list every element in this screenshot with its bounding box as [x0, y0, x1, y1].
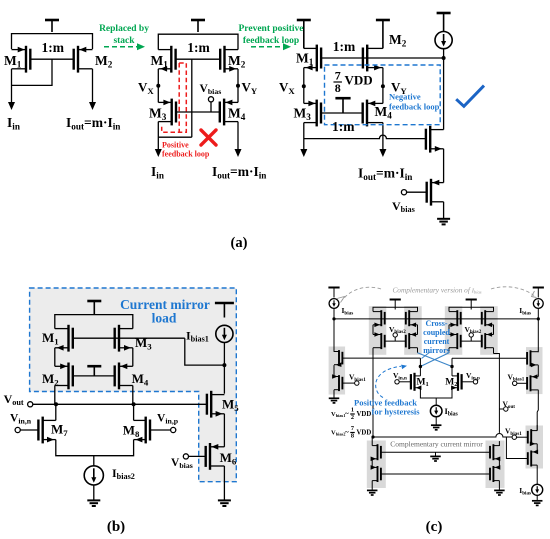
transistor M4 (a-mid) — [220, 99, 238, 126]
wire: left cascode chain from Ibias node (c) — [333, 319, 335, 352]
wire: left Ibias to upper gate rail (c) — [332, 308, 335, 320]
label Vbias (b) — [171, 457, 193, 470]
power VDD (b) — [87, 301, 101, 315]
annotation leader line (blue) — [422, 352, 431, 359]
label M2 (c) — [445, 378, 457, 389]
label M2 (a-right) — [389, 32, 407, 48]
wire: M1 drain to M2 source (b) — [54, 348, 56, 367]
svg-text:1:m: 1:m — [332, 119, 355, 134]
label VY (a-mid) — [242, 80, 258, 96]
transistor M2 (a-right) — [363, 45, 383, 72]
wire: cross-coupled connection X (blue) (c) — [418, 353, 453, 367]
transistor M7 (b) — [38, 417, 55, 444]
svg-text:8: 8 — [351, 433, 354, 440]
transistor: bottom mirror right lower NMOS (c) — [490, 465, 500, 482]
shade: bottom mirror right column (c) — [486, 441, 505, 489]
transistor M1 (b) — [55, 325, 73, 352]
label M6 (b) — [220, 450, 237, 466]
label Vbias (a-right) — [392, 199, 415, 214]
wire: gate rail M2-M4 (b) — [73, 375, 115, 377]
label Vbias1 left (c) — [349, 373, 366, 383]
current source right Ibias (c) — [533, 299, 543, 309]
transistor: right pair upper-right PMOS (c) — [482, 310, 494, 327]
transistor M3 (b) — [115, 325, 133, 352]
wire: gate rail M3-M4 with Vbias stem (a-mid) — [176, 102, 220, 112]
transistor: right pair lower-left PMOS (c) — [449, 332, 461, 349]
transistor: left cascode upper NMOS (c) — [334, 350, 342, 367]
wire: lower gate rail right block with Vbias2 stem (c) — [461, 337, 482, 341]
svg-text:Complementary version of Ibias: Complementary version of Ibias — [392, 285, 481, 294]
shade: right PMOS pair right column (c) — [480, 306, 498, 355]
wire: bottom mirror input rail with hop (c) — [373, 434, 512, 438]
wire: left block right column spine segments (c) — [417, 325, 419, 353]
label: Complementary current mirror (c) — [390, 440, 483, 449]
wire: right lower cascode drain up (c) — [536, 425, 538, 431]
transistor M1 (a-right) — [304, 45, 321, 72]
svg-text:~: ~ — [345, 429, 349, 437]
transistor: right lower cascode lower NMOS (c) — [528, 450, 538, 467]
svg-text:(b): (b) — [107, 519, 125, 535]
ground bottom right (c) — [532, 501, 543, 506]
terminal Vbias1 right lower (c) — [512, 435, 528, 439]
shade: left PMOS pair right column (c) — [404, 306, 422, 355]
label: Negative feedback loop (blue) — [389, 92, 440, 112]
ground M6 (b) — [218, 500, 231, 506]
label Ibias2 (b) — [112, 466, 135, 481]
label M2 (a-left) — [95, 53, 113, 69]
wire: VDD rail (b) — [55, 315, 133, 329]
annotation: Positive feedback for hysteresis (blue) — [354, 398, 420, 417]
wire: bottom mirror left spine (c) — [371, 437, 373, 490]
wire: M4 drain down to M8 node (b) — [132, 386, 134, 405]
label Vbias2 left (c) — [389, 325, 406, 335]
svg-text:Cross-: Cross- — [425, 319, 447, 328]
wire: Ibias1 to junction, step to gate rail (b) — [185, 338, 227, 394]
transistor M2 (a-mid PMOS) — [220, 46, 238, 73]
wire: VDD rail (a-mid) — [158, 34, 238, 49]
ground tail (c) — [431, 425, 442, 430]
label M7 (b) — [51, 422, 68, 438]
wire: M2 drain to right cascode gate (c) — [452, 357, 526, 359]
wire: left cascode gate to M1 drain node (c) — [342, 358, 420, 366]
wire: upper gate rail left block (c) — [334, 318, 538, 320]
label 1:m (a-mid) — [187, 40, 210, 55]
wire: M6 source to ground (a-right) — [443, 202, 445, 218]
svg-text:coupled: coupled — [423, 328, 450, 337]
wire: M3 drain down (a-right) — [300, 123, 307, 157]
transistor: left cascode lower NMOS Vbias1 (c) — [332, 374, 342, 391]
power VDD M2 (a-right) — [376, 20, 390, 48]
transistor: right lower cascode upper NMOS Vbias1 (c) — [528, 429, 537, 446]
svg-text:1: 1 — [351, 407, 354, 414]
label Vbias2 right (c) — [465, 325, 482, 335]
ground (a-right) — [437, 219, 450, 225]
current source bottom right Ibias (c) — [532, 484, 543, 495]
label M3 (a-right) — [294, 106, 312, 122]
label M5 (b) — [222, 397, 239, 413]
svg-text:1:m: 1:m — [187, 40, 210, 55]
terminal Vbias2 left (c) — [393, 333, 397, 337]
wire: bottom mirror upper gate rail (c) — [381, 451, 490, 453]
label 1:m (a-left) — [42, 40, 65, 55]
highlight: current mirror load region (gray fill, blue dashed) — [30, 288, 237, 482]
label Iout=m*Iin (a-right) — [358, 166, 412, 182]
wire: gate rail M3-M4 (a-right) — [321, 112, 363, 114]
wire: tail rail (b) — [56, 440, 134, 456]
transistor M2 (b) — [55, 363, 73, 390]
transistor: bottom mirror right upper NMOS (c) — [490, 444, 500, 461]
terminal Vin,p (b) — [150, 427, 176, 432]
label M3 (b) — [135, 335, 152, 351]
transistor M3 (a-right) — [304, 100, 321, 127]
label Iout=m*Iin (a-left) — [66, 115, 120, 131]
terminal Vbias (a-right) — [401, 190, 426, 195]
shade: right lower cascode column (c) — [526, 426, 544, 469]
shade: left PMOS pair left column (c) — [369, 306, 387, 355]
terminal Vbias (a-mid) — [208, 97, 213, 102]
transistor: bottom mirror left upper NMOS (c) — [371, 444, 381, 461]
annotation arrow: blue dashed hysteresis arc — [376, 365, 407, 398]
wire: Iin branch with current arrow (a-left) — [8, 69, 15, 110]
transistor M2 (a-left PMOS) — [74, 46, 93, 73]
svg-text:Complementary current mirror: Complementary current mirror — [390, 440, 483, 449]
wire: M4 drain down with Iout arrow (a-right) — [379, 123, 386, 157]
transistor M5 cascode NMOS (a-right) — [426, 126, 444, 153]
label M2 (b) — [42, 371, 59, 387]
wire: feedback wire to M5 gate with hop over M4 drain (a-right) — [304, 135, 426, 139]
wire: right upper cascode mid (c) — [537, 365, 539, 376]
label M1 (a-left) — [4, 53, 22, 69]
current source Ibias (a-right) — [435, 31, 452, 48]
wire: gate-to-drain feedback vertical (a-mid) — [191, 59, 193, 137]
wire: right lower cascode mid (c) — [536, 444, 538, 452]
wire: left block output down to bottom mirror (c) — [371, 354, 374, 438]
annotation: Complementary version of Ibias (gray) — [392, 285, 481, 294]
svg-text:8: 8 — [335, 81, 341, 95]
wire: right block left column spine segments (c) — [448, 325, 450, 353]
highlight: negative feedback loop box (blue dashed) — [325, 65, 441, 125]
transistor: right upper cascode lower NMOS (c) — [527, 374, 538, 391]
label bottom right Ibias (c) — [519, 486, 531, 496]
transistor M3 (a-mid) — [158, 99, 176, 126]
svg-text:VDD: VDD — [357, 411, 372, 418]
transistor: right pair upper-left PMOS (c) — [449, 310, 461, 327]
mark: blue checkmark — [456, 86, 484, 107]
annotation arrow: replaced-by-stack dashed green arrow — [104, 43, 145, 50]
label Vbias1 right lower (c) — [505, 427, 522, 437]
wire: rail right PMOS pair (c) — [449, 307, 494, 311]
svg-text:Replaced by: Replaced by — [99, 24, 149, 34]
wire: gate rail M1-M2 (a-left) — [30, 58, 73, 60]
label VX (a-right) — [279, 80, 295, 96]
label M1 (a-right) — [296, 51, 314, 67]
power VDD left PMOS pair (c) — [390, 300, 401, 310]
svg-text:1:m: 1:m — [333, 39, 356, 54]
label VY (a-right) — [391, 80, 407, 96]
wire: right Ibias stem (c) — [537, 308, 539, 319]
current source Ibias2 (b) — [84, 456, 103, 500]
shade: right upper cascode column (c) — [526, 347, 543, 394]
highlight: positive feedback loop (red dashed) — [162, 63, 187, 132]
transistor M6 Vbias NMOS (a-right) — [427, 179, 444, 206]
label (c) — [426, 519, 443, 535]
wire: V_out branch vertical (c) — [498, 358, 500, 433]
power VDD current source (a-right) — [437, 13, 451, 31]
wire: M6 source to ground (b) — [223, 466, 225, 500]
wire: left cascode source to ground (c) — [333, 390, 335, 398]
terminal Vin,n (c) — [395, 380, 411, 384]
label M1 (b) — [42, 330, 59, 346]
transistor: right pair lower-right PMOS (c) — [482, 332, 494, 349]
wire: right lower cascode source to Ibias (c) — [536, 465, 538, 484]
transistor M4 (b) — [115, 363, 133, 390]
wire: Vout vertical below hop (c) — [498, 441, 500, 446]
wire: bottom mirror right spine (c) — [498, 446, 500, 490]
power VDD M1 (a-right) — [297, 20, 311, 48]
label M4 (a-right) — [375, 104, 393, 120]
label Iin (a-mid) — [151, 164, 164, 180]
wire: diode connection gate to drain (a-left) — [12, 59, 53, 85]
wire: M3 drain to M4 source (b) — [132, 348, 134, 367]
ground Ibias2 (b) — [87, 500, 100, 506]
label tail Ibias (c) — [445, 406, 459, 418]
label VX (a-mid) — [138, 80, 154, 96]
power VDD (a-left) — [45, 20, 59, 32]
wire: bottom right Ibias to ground (c) — [536, 495, 538, 500]
power VDD (a-mid) — [191, 20, 205, 32]
svg-text:~: ~ — [345, 410, 349, 418]
power VDD left Ibias (c) — [328, 288, 339, 298]
label Vin,n (b) — [10, 413, 32, 426]
annotation: Cross-coupled current mirrors (blue) — [423, 319, 450, 355]
transistor M4 (a-right) — [363, 100, 383, 127]
transistor: bottom mirror left lower NMOS (c) — [371, 465, 381, 482]
transistor M1 (a-mid PMOS) — [158, 46, 175, 73]
wire: rail left PMOS pair (c) — [373, 307, 418, 311]
label Iin (a-left) — [7, 115, 20, 131]
annotation: Replaced by stack (green) — [99, 24, 149, 46]
shade: bottom mirror left column (c) — [367, 441, 386, 489]
transistor: left pair lower-left PMOS (c) — [373, 332, 385, 349]
transistor: left pair upper-left PMOS (c) — [373, 310, 385, 327]
terminal Vbias2 right (c) — [469, 333, 473, 337]
label Vout (c) — [503, 400, 516, 410]
terminal Vout (b) — [28, 402, 33, 407]
label (a) — [231, 235, 248, 251]
label 7/8 VDD (a-right) — [333, 69, 372, 95]
label 1:m top (a-right) — [333, 39, 356, 54]
annotation arrow: prevent-loop dashed green arrow — [251, 43, 291, 50]
label M1 (a-mid) — [151, 53, 169, 69]
terminal Vbias (b) — [183, 454, 205, 459]
wire: Iout branch with current arrow (a-left) — [89, 69, 96, 110]
wire: bottom mirror lower gate rail (c) — [381, 473, 490, 475]
svg-text:load: load — [152, 311, 177, 326]
transistor M2 (c) — [451, 373, 462, 391]
wire: diff pair tail rail (c) — [420, 388, 452, 398]
svg-text:feedback loop: feedback loop — [243, 36, 299, 46]
annotation arrow: right dashed gray arc — [491, 287, 537, 298]
wire: gate rail M1-M3 extended (b) — [73, 337, 185, 339]
node VY (a-mid) — [236, 69, 240, 103]
transistor: right upper cascode upper NMOS (c) — [527, 350, 538, 367]
svg-text:Prevent positive: Prevent positive — [239, 24, 304, 34]
shade: right PMOS pair left column (c) — [445, 306, 463, 355]
wire: M8 drain up (b) — [133, 404, 135, 420]
transistor M5 (b) — [207, 391, 225, 418]
transistor M1 (c) — [411, 373, 422, 391]
junction: right Ibias node (c) — [537, 317, 540, 320]
svg-text:7: 7 — [351, 425, 354, 432]
svg-text:feedback loop: feedback loop — [162, 150, 210, 159]
ground left cascode (c) — [329, 398, 340, 403]
wire: right block right column spine segments (c) — [494, 325, 500, 358]
svg-text:stack: stack — [113, 36, 135, 46]
power symbol at M2-M4 gates (b) — [87, 366, 101, 376]
label Iout=m*Iin (a-mid) — [212, 164, 266, 180]
label Vin,p (b) — [157, 413, 179, 426]
shade: left cascode column (c) — [329, 347, 346, 395]
wire: Vout rail with junction dots (b) — [33, 402, 207, 406]
wire: M5 source to M6 drain (b) — [223, 414, 225, 447]
label M4 (b) — [132, 371, 149, 387]
terminal Vin,p (c) — [462, 380, 478, 384]
label left Ibias (c) — [342, 306, 354, 316]
wire: VDD rail (a-left) — [12, 34, 93, 49]
svg-text:Positive: Positive — [162, 141, 189, 150]
terminal Vbias1 right upper (c) — [513, 381, 528, 385]
transistor M6 (b) — [206, 443, 225, 470]
label 1:m bottom (a-right) — [332, 119, 355, 134]
node VY (a-right) — [381, 68, 385, 104]
mark: red X (a-mid) — [201, 130, 216, 145]
label M2 (a-mid) — [228, 53, 246, 69]
label: Current mirror load (blue) — [120, 297, 210, 326]
label M3 (a-mid) — [149, 106, 167, 122]
wire: M4 drain to Iout arrow (a-mid) — [235, 122, 242, 157]
terminal Vbias1 left (c) — [342, 381, 359, 385]
wire: current source to gate node with junction (a-right) — [442, 49, 446, 130]
wire: left block left column spine segments (c) — [372, 325, 374, 358]
label Vout (b) — [4, 392, 24, 407]
current source left Ibias (c) — [329, 299, 339, 309]
node VX (a-right) — [302, 68, 306, 104]
label Vbias1 right upper (c) — [508, 372, 525, 382]
label M1 (c) — [417, 378, 429, 389]
transistor M1 (a-left PMOS) — [12, 46, 31, 73]
label (b) — [107, 519, 125, 535]
current source Ibias1 (b) — [216, 325, 233, 342]
svg-text:feedback loop: feedback loop — [389, 102, 440, 112]
label Vbias (a-mid) — [200, 83, 222, 96]
ground symbol on upper gate rail (c) — [430, 452, 441, 461]
svg-text:current: current — [424, 337, 450, 346]
svg-text:for hysteresis: for hysteresis — [372, 407, 421, 417]
power VDD right PMOS pair (c) — [466, 300, 477, 310]
ground bottom mirror right (c) — [494, 490, 505, 495]
wire: lower gate rail left block with Vbias2 stem (c) — [385, 337, 406, 341]
wire: right Ibias chain down to upper cascode (c) — [537, 319, 539, 352]
wire: M3 drain to Iin arrow (a-mid) — [155, 122, 192, 157]
label M8 (b) — [123, 423, 140, 439]
wire: right cascode chain to lower cascode (c) — [537, 390, 538, 431]
wire: M7 drain up (b) — [55, 404, 57, 420]
annotation: Prevent positive feedback loop (green) — [239, 24, 304, 46]
transistor M8 (b) — [134, 417, 150, 444]
wire: M2 drain down to Vout node (b) — [54, 386, 56, 405]
svg-text:(a): (a) — [231, 235, 248, 251]
terminal Vout (c) — [499, 407, 508, 411]
labels: Vbias1 and Vbias2 approx values (c) — [331, 407, 371, 422]
wire: right lower cascode lower gate link (c) — [506, 437, 527, 459]
svg-text:(c): (c) — [426, 519, 443, 535]
power VDD Ibias1 (b) — [215, 303, 234, 318]
power VDD right Ibias (c) — [533, 288, 544, 298]
label right Ibias (c) — [519, 306, 531, 316]
transistor: left pair lower-right PMOS (c) — [406, 332, 418, 349]
wire: gate rail M1-M2 (a-mid) — [176, 58, 221, 60]
ground bottom mirror left (c) — [367, 490, 378, 495]
svg-text:VDD: VDD — [345, 72, 373, 87]
label Vin,n (c) — [393, 371, 407, 381]
label Vin,p (c) — [466, 371, 480, 381]
power symbol at M3-M4 gates (a-right) — [335, 98, 350, 113]
svg-text:1:m: 1:m — [42, 40, 65, 55]
wire: M5 source to M6 drain (a-right) — [443, 149, 445, 183]
svg-text:2: 2 — [351, 414, 354, 421]
current source tail Ibias (c) — [430, 398, 442, 425]
annotation arrow: left dashed gray arc — [337, 287, 381, 302]
transistor: left pair upper-right PMOS (c) — [406, 310, 418, 327]
label M4 (a-mid) — [228, 106, 246, 122]
wire: M2 drain node (c) — [450, 358, 453, 376]
wire: gate rail M1-M2 extended to current source node (a-right) — [321, 57, 444, 59]
wire: left cascode mid (c) — [333, 365, 335, 376]
svg-text:VDD: VDD — [357, 430, 372, 437]
wire: M1 drain node (c) — [419, 365, 422, 376]
label: Positive feedback loop (red) — [162, 141, 210, 159]
node VX (a-mid) — [156, 69, 160, 103]
label Ibias1 (b) — [186, 329, 209, 344]
terminal Vin,n (b) — [15, 427, 38, 432]
